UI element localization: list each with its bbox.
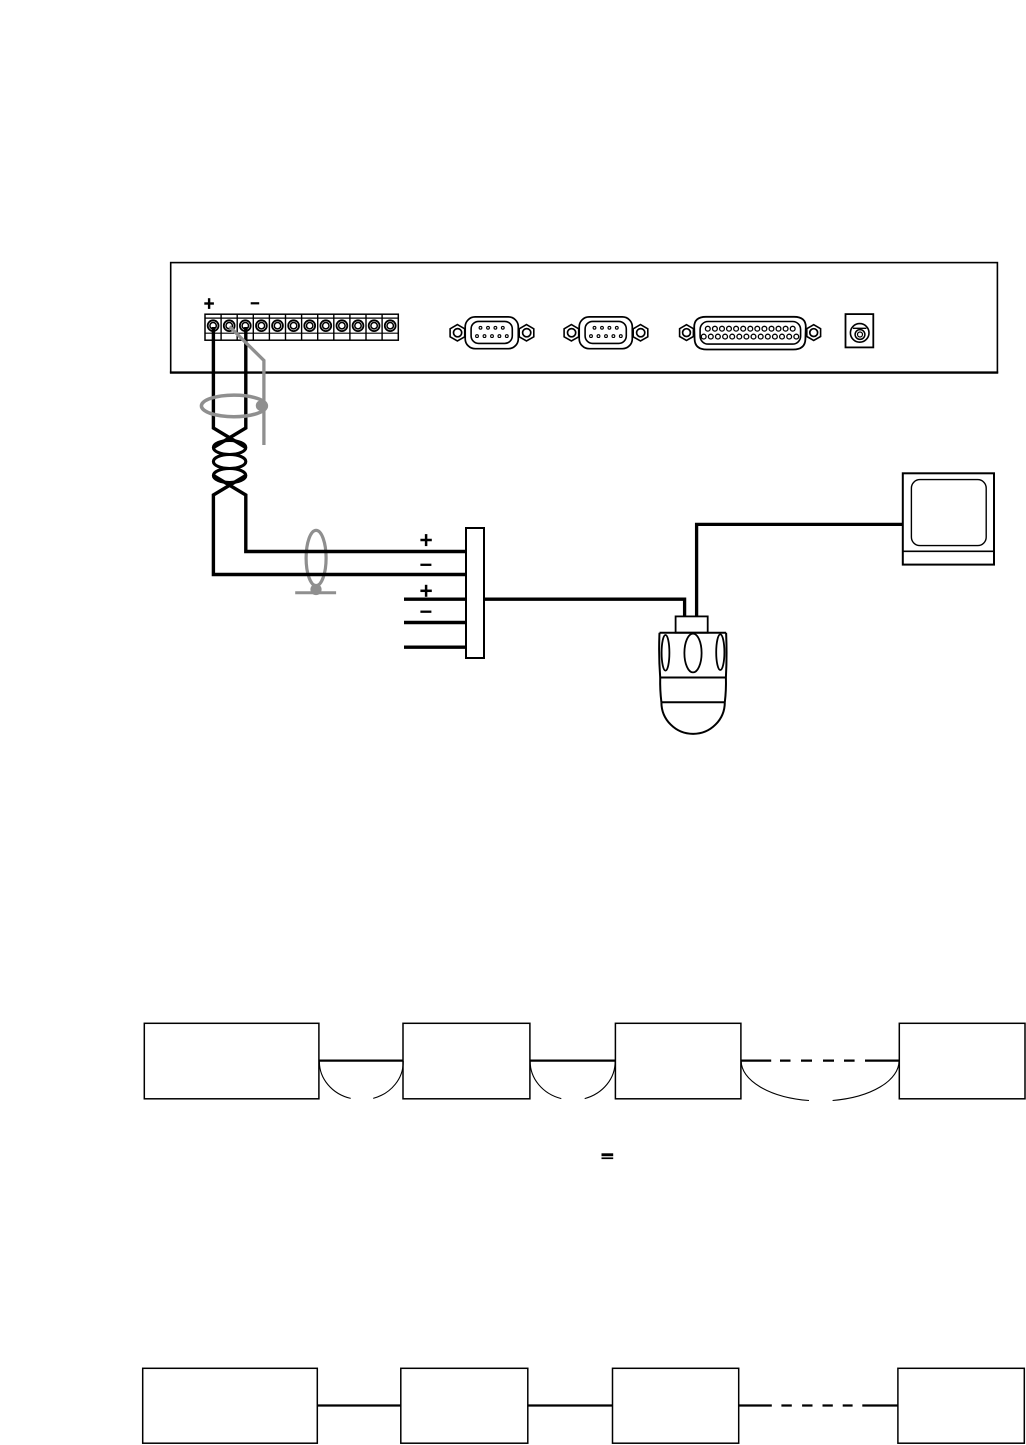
wire lower-left run to strip [213, 476, 466, 575]
camera connector block [676, 616, 708, 632]
sag arc row 1 box1-box2 [319, 1061, 403, 1098]
shield drain wire (gray) from terminal 2 [230, 327, 264, 446]
twisted pair ellipse 2 [213, 455, 245, 469]
camera lens port right [716, 634, 724, 670]
terminal strip bar [466, 528, 484, 658]
monitor [903, 473, 994, 564]
DB9 connector J2 [564, 317, 648, 349]
DC power jack J4 [846, 314, 874, 347]
cable tie tail (gray line) [295, 591, 336, 594]
rear panel enclosure [170, 263, 998, 373]
DB9 connector J1 [450, 317, 534, 349]
link row 1 box3-box4 dashed [741, 1059, 899, 1061]
flow row 1 box 3 [615, 1023, 741, 1099]
camera band [660, 678, 726, 703]
flow row 2 box 1 [143, 1368, 318, 1443]
flow row 1 box 4 [899, 1023, 1025, 1099]
DB9 J1 pins [476, 326, 509, 337]
stub wire 5 [404, 646, 466, 649]
wire from terminal 1 (+) [213, 327, 245, 448]
terminal screws [208, 320, 396, 331]
link row 1 box1-box2 [319, 1059, 403, 1061]
stub wire 3 [404, 598, 466, 601]
sag arc row 1 box2-box3 [530, 1061, 615, 1099]
flow row 2 box 3 [613, 1368, 739, 1443]
flow row 2 box 2 [401, 1368, 528, 1443]
camera lens port left [662, 635, 670, 671]
camera dome [661, 702, 724, 734]
label plus terminal 1 [204, 298, 214, 309]
link row 2 box1-box2 [317, 1404, 401, 1406]
equals mark [602, 1153, 614, 1156]
terminal block TB1 [205, 314, 398, 340]
label minus wire 4 at strip [420, 611, 431, 613]
label plus wire 3 at strip [420, 585, 431, 597]
link row 1 box2-box3 [530, 1059, 616, 1061]
flow row 1 box 2 [403, 1023, 530, 1099]
stub wire 4 [404, 621, 466, 624]
wire from terminal 3 (-) [213, 327, 245, 448]
link row 2 box2-box3 [528, 1404, 613, 1406]
link row 2 box3-box4 dashed [739, 1404, 898, 1406]
cable tie knot 1 (gray dot) [256, 400, 267, 411]
cable tie loop 1 (gray ellipse) [201, 395, 266, 417]
label plus wire 1 at strip [420, 534, 431, 546]
flow row 1 box 1 [144, 1023, 319, 1099]
wire lower-right run to strip [213, 476, 466, 552]
video wire from strip to camera [484, 599, 685, 617]
cable tie loop 2 (gray vertical ellipse) [306, 530, 326, 585]
label minus terminal 3 [251, 302, 260, 304]
flow row 2 box 4 [898, 1368, 1024, 1443]
DB9 J2 pins [590, 326, 623, 337]
twisted pair ellipse 1 [213, 441, 245, 455]
DB25 connector J3 [680, 317, 821, 350]
label minus wire 2 at strip [420, 564, 431, 566]
DB25 J3 pins [701, 326, 798, 339]
twisted pair ellipse 3 [213, 469, 245, 483]
video wire camera to monitor [697, 524, 903, 617]
sag arc row 1 box3-box4 [741, 1061, 899, 1101]
cable tie knot 2 (gray dot) [310, 584, 321, 595]
camera lens port center [684, 634, 701, 673]
camera body [659, 633, 726, 678]
